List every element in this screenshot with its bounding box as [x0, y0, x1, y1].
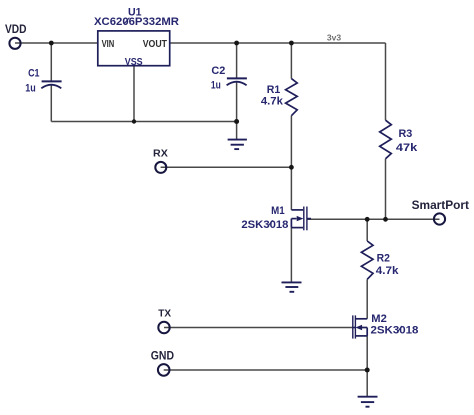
svg-text:GND: GND: [151, 351, 174, 363]
svg-text:C1: C1: [28, 67, 39, 79]
svg-text:47k: 47k: [396, 142, 418, 154]
svg-text:2SK3018: 2SK3018: [241, 219, 288, 231]
svg-text:4.7k: 4.7k: [376, 265, 400, 277]
svg-text:VIN: VIN: [102, 39, 115, 50]
svg-text:4.7k: 4.7k: [261, 96, 284, 108]
svg-text:C2: C2: [211, 65, 225, 77]
svg-text:M1: M1: [271, 205, 285, 217]
svg-text:R2: R2: [377, 252, 390, 264]
svg-text:XC6206P332MR: XC6206P332MR: [94, 16, 179, 28]
svg-text:VOUT: VOUT: [143, 39, 167, 50]
svg-text:1u: 1u: [211, 80, 221, 92]
svg-text:VSS: VSS: [125, 56, 143, 68]
svg-text:TX: TX: [158, 307, 171, 319]
svg-text:3v3: 3v3: [327, 32, 341, 42]
svg-text:1u: 1u: [25, 82, 36, 94]
svg-text:RX: RX: [153, 147, 168, 159]
svg-text:SmartPort: SmartPort: [412, 198, 469, 212]
svg-text:R3: R3: [399, 128, 413, 140]
svg-text:R1: R1: [267, 84, 281, 96]
svg-text:M2: M2: [371, 313, 387, 325]
svg-text:VDD: VDD: [5, 24, 27, 36]
svg-text:2SK3018: 2SK3018: [371, 325, 419, 337]
